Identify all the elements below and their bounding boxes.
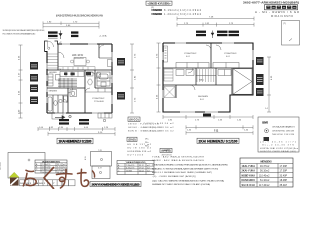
svg-text:46.37m2: 46.37m2 — [260, 165, 270, 168]
svg-text:6.37x2.75: 6.37x2.75 — [126, 168, 134, 170]
2F door arcs — [188, 45, 221, 90]
svg-text:(KASHO) TERASU HAUSU SHINCHIKU: (KASHO) TERASU HAUSU SHINCHIKU KEIKAKU-A… — [56, 14, 103, 17]
svg-text:7.28: 7.28 — [98, 150, 102, 152]
2F lower closet — [164, 87, 175, 98]
svg-text:35.41P: 35.41P — [280, 184, 288, 187]
2F left dimension line — [157, 43, 161, 112]
svg-text:<SINSEI-KYUSEKI>: <SINSEI-KYUSEKI> — [148, 1, 171, 5]
2F area calc caption — [90, 182, 141, 187]
2F top overall dimension — [177, 17, 254, 21]
2F closets upper — [176, 63, 239, 69]
svg-text:(DAI2): (DAI2) — [129, 139, 136, 142]
svg-text:YOSHITSU3: YOSHITSU3 — [224, 53, 237, 55]
header project code line top right — [243, 0, 299, 4]
svg-text:GU IE 180 m2: GU IE 180 m2 — [127, 148, 152, 150]
svg-text:BONREI: BONREI — [262, 122, 268, 125]
2F right tag blobs — [256, 57, 264, 96]
svg-text:YUKA : ASU IRAN-A SESHIN-KACHI: YUKA : ASU IRAN-A SESHIN-KACHIE — [152, 155, 205, 158]
drain symbols — [69, 115, 106, 122]
notes text top left — [3, 29, 45, 36]
svg-text:ARAKASU-TO KEKKA CHIKARA-NASHI: ARAKASU-TO KEKKA CHIKARA-NASHI DAI (SHIR… — [152, 167, 218, 170]
svg-text:LDK 16.5J: LDK 16.5J — [72, 54, 84, 57]
2F window gaps — [163, 43, 253, 112]
1F bath unit — [97, 72, 110, 86]
svg-text:18.48P: 18.48P — [280, 179, 288, 182]
2F stairs — [196, 68, 217, 85]
svg-text:m2: m2 — [147, 165, 150, 167]
svg-text:MIRAIUNSHO: MIRAIUNSHO — [271, 15, 293, 18]
svg-text:56.10m2: 56.10m2 — [260, 170, 270, 173]
1F upper cabinet row — [58, 67, 95, 70]
2F right dimension line — [267, 57, 271, 112]
svg-text:6.0J: 6.0J — [226, 56, 230, 58]
rakusumu watermark RA — [23, 170, 36, 186]
1F door arcs — [58, 52, 95, 93]
1F right tag blobs — [117, 58, 125, 100]
legend table 1 right of 1F — [128, 117, 162, 132]
1F dining table — [74, 58, 86, 66]
svg-text:6.37: 6.37 — [98, 168, 102, 170]
site plan rectangle bottom left — [8, 153, 45, 179]
svg-text:1KAI-YUKA: 1KAI-YUKA — [242, 165, 256, 168]
rakusumu watermark SU — [57, 170, 73, 189]
svg-text:CHOKKETSU 1391/1W: CHOKKETSU 1391/1W — [272, 131, 294, 133]
1F window tag blobs left column — [30, 62, 38, 104]
svg-text:YUKA KYUSEKI HYO: YUKA KYUSEKI HYO — [126, 161, 146, 164]
svg-text:17.52: 17.52 — [139, 168, 144, 170]
svg-text:2KAI-YUKA: 2KAI-YUKA — [242, 170, 256, 173]
2F interior walls — [163, 43, 253, 98]
2F level mark — [211, 31, 214, 39]
2F plan caption — [197, 138, 239, 143]
application area text block top left — [146, 1, 202, 16]
rakusumu watermark MU — [78, 169, 95, 186]
1F stair hatch top-left — [48, 54, 58, 68]
1F bottom overall dimension — [48, 132, 115, 136]
2F WIC grid left — [164, 69, 173, 81]
legend box right — [258, 117, 299, 153]
1F sanitary compartments — [47, 95, 68, 113]
svg-text:17.03P: 17.03P — [280, 165, 288, 168]
approval box top right — [282, 21, 300, 46]
svg-text:TAKUCHI 1301/1M: TAKUCHI 1301/1M — [272, 133, 294, 136]
svg-text:CHOSA-ZUMI KANARI-TO: CHOSA-ZUMI KANARI-TO — [272, 126, 295, 129]
svg-text:GAIBU : ASU IRAN-A SESHIN-KACH: GAIBU : ASU IRAN-A SESHIN-KACHIE — [152, 159, 205, 162]
svg-text:YUKAMENSEKI: YUKAMENSEKI — [151, 13, 162, 16]
1F right dimension line — [130, 44, 134, 113]
2F top label blobs — [196, 31, 239, 37]
svg-text:YUKAMENSEKI: YUKAMENSEKI — [151, 9, 162, 12]
1F kitchen dense hatch — [58, 78, 77, 88]
svg-text:SHUSHIN: SHUSHIN — [198, 96, 208, 98]
1F entrance porch — [45, 41, 58, 52]
svg-text:SHONIN: SHONIN — [0, 162, 2, 170]
svg-text:MENSEKI: MENSEKI — [261, 160, 272, 164]
svg-text:GOKEI: GOKEI — [126, 170, 132, 172]
1F WC — [70, 90, 77, 97]
1F entry closet — [48, 74, 60, 86]
svg-text:4.55: 4.55 — [85, 156, 87, 160]
svg-text:D6.47(D)+1.38 D6 m2: D6.47(D)+1.38 D6 m2 — [144, 127, 175, 129]
1F porch/terrace below — [52, 113, 112, 119]
svg-text:7.28x4.55: 7.28x4.55 — [126, 165, 134, 167]
svg-text:61.10m2: 61.10m2 — [260, 179, 270, 182]
1F label blob A (top) — [48, 31, 58, 38]
svg-text:FUDOSAN TO HOMON DEKINAI BAAI: FUDOSAN TO HOMON DEKINAI BAAI NO AD. — [3, 32, 36, 35]
svg-text:GENKAN: GENKAN — [49, 71, 57, 74]
notes list bottom center — [152, 155, 228, 186]
1F label blob B (top) — [71, 31, 78, 37]
left edge small text — [0, 162, 2, 170]
svg-text:5460x4550: 5460x4550 — [74, 58, 85, 60]
2F hall fixtures — [176, 70, 194, 76]
svg-text:GUSOTO CHIRI SEKAI (GU): GUSOTO CHIRI SEKAI (GU) — [260, 150, 296, 153]
kitchen micro marks — [64, 72, 91, 76]
svg-text:8.19m2x(1/2)=4.09m2: 8.19m2x(1/2)=4.09m2 — [164, 9, 202, 12]
2F side vertical tag — [164, 46, 168, 62]
1F plan caption — [57, 138, 93, 144]
svg-text:m2: m2 — [147, 170, 150, 172]
rakusumu watermark KU — [44, 168, 54, 189]
svg-text:+1.00 A: +1.00 A — [99, 35, 107, 38]
1F outer walls — [45, 44, 113, 113]
1F bottom label blobs — [59, 119, 89, 125]
1F window thin lines — [47, 44, 112, 113]
svg-text:GL+-0 40-36 37%: GL+-0 40-36 37% — [262, 145, 294, 147]
svg-text:KENCHIKU: KENCHIKU — [242, 179, 256, 182]
svg-text:117.40m2: 117.40m2 — [259, 184, 270, 187]
svg-text:6.0J: 6.0J — [186, 56, 190, 58]
1F washroom fixtures — [87, 72, 93, 85]
stamp cell row — [20, 180, 76, 186]
svg-text:(7): (7) — [283, 23, 286, 25]
svg-text:NOBE-YUKA: NOBE-YUKA — [242, 175, 256, 178]
svg-text:D6.47(D)+1.38 D6 m2: D6.47(D)+1.38 D6 m2 — [144, 131, 175, 133]
header boxed title top right — [265, 5, 298, 10]
svg-text:2KAI YUKAMENSEKI KYUSEKIZU S:1: 2KAI YUKAMENSEKI KYUSEKIZU S:1/100 — [92, 183, 140, 187]
svg-text:GO: GO — [39, 183, 43, 185]
svg-text:GUDENWA 538 m2: GUDENWA 538 m2 — [127, 150, 152, 153]
1F kitchen counter — [60, 72, 84, 77]
svg-text:m2: m2 — [147, 168, 150, 170]
svg-text:A - M1 - RAWIN / 6 GO: A - M1 - RAWIN / 6 GO — [255, 10, 300, 14]
2F balcony with roof slope — [233, 69, 252, 94]
2F bottom overall dimension — [186, 131, 253, 135]
2F bottom sub dimension — [163, 115, 253, 119]
svg-text:50.64: 50.64 — [139, 170, 144, 172]
svg-text:SHIRABE NO? KAKO KATSUDO KAHO: SHIRABE NO? KAKO KATSUDO KAHO 3 NI ABO (… — [152, 183, 210, 186]
svg-text:7.28(D)+1.38 D6 m2: 7.28(D)+1.38 D6 m2 — [144, 123, 175, 125]
2F hall counter right — [218, 70, 231, 76]
svg-text:-(1)- : CHIKU SHIRABE KA? (AOR: -(1)- : CHIKU SHIRABE KA? (AORI(2)) — [152, 175, 196, 178]
level mark symbol — [59, 31, 62, 40]
svg-text:8.0J: 8.0J — [200, 99, 204, 101]
1F bath extra lines — [95, 73, 112, 87]
svg-text:33.12: 33.12 — [139, 165, 144, 167]
svg-text:2KAI HEIMENZU S:1/100: 2KAI HEIMENZU S:1/100 — [199, 140, 238, 144]
1F area calc table bottom left — [35, 160, 67, 174]
svg-text:GU?1003: GU?1003 — [127, 155, 144, 157]
svg-text:33.40P: 33.40P — [280, 175, 288, 178]
svg-text:17.00P: 17.00P — [280, 170, 288, 173]
svg-text:JOKAI NIWA SOREARU UCHIWA, IPP: JOKAI NIWA SOREARU UCHIWA, IPPAN ZAISHIN… — [152, 163, 228, 166]
2F legend blob — [203, 114, 211, 117]
svg-text:SHIKICHI: SHIKICHI — [242, 184, 256, 187]
1F right bedroom closet — [85, 88, 112, 92]
svg-text:3602-6077-ARKHSMSEI-M30(B9R): 3602-6077-ARKHSMSEI-M30(B9R) — [243, 0, 299, 4]
svg-text:YOSHITSU2: YOSHITSU2 — [92, 98, 105, 100]
svg-text:(1)(2) : DAI-CHIJO MANSHU SEYA: (1)(2) : DAI-CHIJO MANSHU SEYAKAMA KATSU… — [152, 179, 224, 182]
svg-text:1KAI KYUSEKI HYO: 1KAI KYUSEKI HYO — [42, 160, 60, 163]
2F area calc table — [117, 161, 154, 175]
svg-text:(HANREI): (HANREI) — [162, 150, 171, 153]
svg-text:HALL: HALL — [199, 79, 205, 82]
1F interior walls — [47, 44, 112, 113]
svg-text:2730x3640: 2730x3640 — [94, 101, 105, 103]
entry arrow below plan — [55, 116, 65, 119]
hanrei box — [160, 148, 172, 152]
2F outer walls — [163, 43, 253, 112]
rakusumu logo house — [9, 172, 19, 185]
2F bottom second dimension — [186, 125, 253, 129]
1F top right room — [98, 44, 100, 58]
1F top dimension line — [43, 21, 99, 28]
notes rows small left of 2F caption — [144, 123, 175, 133]
svg-text:(KIGO): (KIGO) — [130, 119, 139, 122]
svg-text:HONYA 1KAI KOZO KIT(HF)8ea: HONYA 1KAI KOZO KIT(HF)8ea — [260, 147, 299, 150]
1F2F mini rows — [145, 139, 150, 148]
svg-text:SUPESU(KOKUHO-BONA-HAYOARI?(RE: SUPESU(KOKUHO-BONA-HAYOARI?(REGURI) FUDS… — [3, 29, 45, 32]
2F area calc diagram — [91, 152, 112, 179]
svg-text:YOSHITSU2: YOSHITSU2 — [184, 53, 197, 55]
area summary table bottom right — [240, 158, 293, 187]
svg-text:110.40m2: 110.40m2 — [259, 175, 270, 178]
svg-text:1.20m2x(3/4)=4.25m2: 1.20m2x(3/4)=4.25m2 — [164, 13, 202, 16]
1F window gaps (white) on walls — [47, 44, 112, 113]
legend table 2 — [127, 137, 152, 157]
1F bottom dimension line — [38, 127, 115, 131]
svg-text:1KAI HEIMENZU S:1/100: 1KAI HEIMENZU S:1/100 — [59, 140, 92, 144]
svg-text:SENMEN: SENMEN — [49, 91, 58, 93]
2F top sub dimension — [177, 23, 254, 27]
1F left dimension line — [19, 45, 23, 118]
svg-text:ANE 6.5.1 SHIRABE-SHU AHO IRAM: ANE 6.5.1 SHIRABE-SHU AHO IRAMI (SHIRABE… — [152, 171, 212, 174]
